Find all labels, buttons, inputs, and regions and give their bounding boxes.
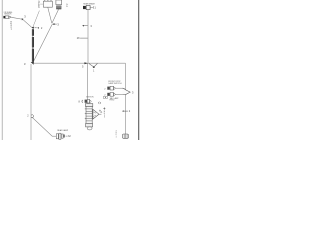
speedometer box U1	[43, 1, 52, 7]
connector block of U2	[56, 6, 61, 9]
label: vertical wire text right of cone	[103, 107, 105, 109]
marker dash on right riser	[124, 110, 128, 112]
wire P1 to node A	[11, 17, 21, 19]
label 5 marker right of coil top	[98, 102, 101, 104]
wire from cone tip	[99, 113, 101, 115]
wire branch to rear lamp	[32, 117, 52, 136]
wire P3 to splice	[116, 87, 123, 89]
wire from speedo area to node C	[33, 11, 39, 27]
coil top connector	[85, 100, 87, 103]
marker arrow on wire at y25.7	[82, 25, 84, 27]
label: front stoplamp switch text	[108, 81, 122, 85]
node C junction arrow	[32, 27, 35, 29]
wire right riser corner	[125, 63, 127, 134]
splice fork at node E	[89, 64, 94, 68]
coil body bottom cap	[86, 123, 93, 127]
coil bottom ellipse	[87, 127, 92, 130]
wire U2 to node B	[52, 9, 59, 23]
svg-text:IGNITION: IGNITION	[86, 97, 94, 99]
connector P1	[3, 16, 5, 19]
wire U1 to node B	[48, 7, 52, 23]
label: speedometer vertical text	[38, 1, 40, 9]
wire node E down to coil	[87, 63, 89, 99]
tiny circles beside cone	[99, 110, 100, 111]
label: wire color vertical text	[10, 22, 12, 32]
label: left sensor text	[4, 12, 13, 16]
indicator box U2	[56, 0, 62, 5]
splice cone S1	[122, 88, 130, 95]
page right border	[138, 0, 140, 140]
pin 1 of U1	[44, 0, 46, 1]
label: U2 vertical text	[66, 4, 68, 8]
svg-text:REAR BRAKE: REAR BRAKE	[83, 2, 95, 5]
page left border	[1, 0, 3, 140]
coil cone terminal	[93, 109, 99, 119]
marker left of coil connector	[81, 100, 84, 103]
wire P4 to splice	[116, 93, 123, 95]
node A junction arrow	[22, 18, 24, 20]
rear lamp component	[56, 134, 58, 139]
label: coil top text	[86, 97, 94, 99]
coil body top cap	[85, 104, 92, 107]
svg-text:SENSOR: SENSOR	[4, 14, 12, 16]
tick from label to box U1	[40, 3, 43, 5]
node D junction arrow	[31, 62, 34, 65]
connector P3	[107, 87, 110, 90]
connector P4	[107, 93, 110, 96]
label: right small text	[110, 97, 120, 102]
wire left drop from node D	[30, 64, 32, 140]
wire P2 down to node E	[87, 10, 89, 63]
main harness bar segment 1	[32, 29, 34, 36]
main harness bar segment 2	[32, 37, 34, 48]
wire node A to node C	[23, 20, 32, 28]
wire node B to node D (long diagonal)	[33, 25, 52, 63]
svg-text:LAMP SWITCH: LAMP SWITCH	[108, 82, 122, 85]
node E junction arrow	[84, 62, 88, 64]
tail lamp bulb	[123, 134, 129, 138]
pin 3 of U1	[50, 0, 52, 1]
tiny icon above right text	[103, 97, 105, 99]
connector P2	[83, 6, 86, 9]
pin 2 of U1	[47, 0, 49, 1]
main harness bar segment 3	[32, 49, 34, 62]
label: lamp vertical text	[115, 131, 117, 139]
svg-text:FEED: FEED	[110, 100, 115, 102]
svg-text:REAR LAMP: REAR LAMP	[57, 129, 69, 132]
label 32 at rear lamp	[66, 135, 68, 137]
coil body ribs	[86, 106, 92, 123]
node B junction arrow	[52, 23, 55, 25]
wire main horizontal bus	[34, 62, 126, 64]
